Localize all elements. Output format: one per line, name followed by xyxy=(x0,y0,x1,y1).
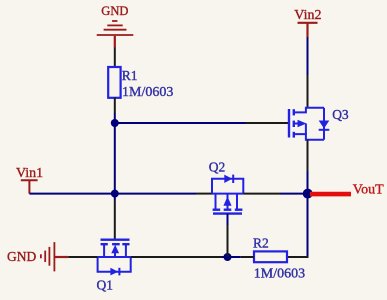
pin R2 left xyxy=(241,256,254,258)
port Vin2 xyxy=(294,8,321,37)
wire Q3 source to node D xyxy=(307,172,309,194)
pin Q1 source left xyxy=(68,256,97,258)
pin R2 right xyxy=(287,256,309,258)
node A junction dot xyxy=(111,119,119,127)
transistor Q1 xyxy=(98,240,131,276)
svg-text:GND: GND xyxy=(101,4,128,18)
wire node A down to node B xyxy=(114,123,116,194)
transistor Q3 xyxy=(289,108,329,140)
svg-text:Q3: Q3 xyxy=(332,107,349,122)
pin Q3 source xyxy=(307,140,309,172)
pin Q3 drain xyxy=(307,75,309,108)
svg-text:Vin2: Vin2 xyxy=(294,8,321,23)
svg-text:1M/0603: 1M/0603 xyxy=(254,266,305,281)
wire node A to Q3 gate xyxy=(115,122,245,124)
svg-text:VouT: VouT xyxy=(353,183,384,198)
transistor Q2 xyxy=(212,175,243,214)
wire Q2 gate down xyxy=(227,214,229,225)
pin Q2 left xyxy=(196,193,212,195)
resistor R2 xyxy=(254,251,287,262)
net VouT thick red wire xyxy=(310,192,351,197)
wire node B to Q2 left xyxy=(115,193,196,195)
svg-text:GND: GND xyxy=(7,249,36,264)
pin Q3 gate xyxy=(245,122,289,124)
node B junction dot xyxy=(111,190,119,198)
pin Q2 right xyxy=(243,193,280,195)
svg-text:Q1: Q1 xyxy=(97,277,114,292)
wire Vin2 to Q3 drain xyxy=(307,37,309,75)
wire R1 to node A xyxy=(114,113,116,123)
wire Q1 to node C xyxy=(222,256,241,258)
power ground symbol left GND xyxy=(41,242,68,271)
port Vin1 xyxy=(16,166,43,194)
svg-text:R2: R2 xyxy=(253,235,269,250)
svg-text:R1: R1 xyxy=(122,68,138,83)
node D junction dot xyxy=(303,189,313,199)
pin Q2 gate lower xyxy=(227,225,229,257)
pin R1.2 xyxy=(114,98,116,114)
wire node D down to R2 xyxy=(307,194,309,257)
wire Vin1 to node B xyxy=(29,193,114,195)
svg-text:1M/0603: 1M/0603 xyxy=(122,85,173,100)
wire Q2 right to node D xyxy=(280,193,308,195)
svg-text:Q2: Q2 xyxy=(209,159,226,174)
pin Q1 drain right xyxy=(131,256,222,258)
node C junction dot xyxy=(224,253,232,261)
power ground symbol top GND xyxy=(97,21,134,48)
pin Q1 gate xyxy=(114,200,116,240)
pin R1.1 xyxy=(114,48,116,68)
svg-text:Vin1: Vin1 xyxy=(16,166,43,181)
wire node B down to Q1 gate xyxy=(114,194,116,200)
resistor R1 xyxy=(108,67,120,98)
